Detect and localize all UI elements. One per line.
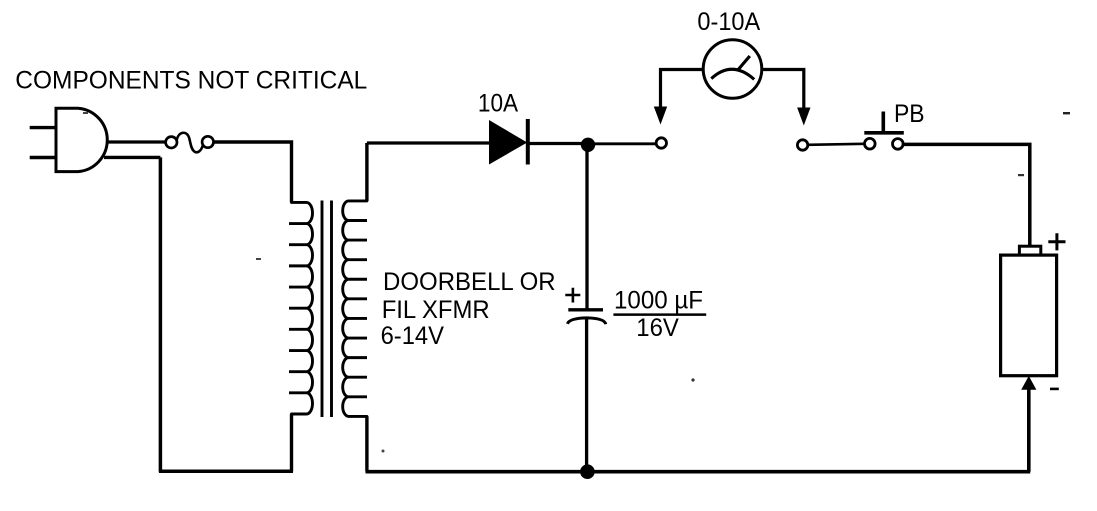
diode D1 triangle bbox=[489, 120, 527, 165]
arrow head left meter lead bbox=[654, 107, 667, 125]
svg-text:PB: PB bbox=[894, 100, 925, 128]
wire: battery bottom to rail bbox=[1027, 389, 1031, 472]
wire: terminal B to push button bbox=[808, 144, 864, 145]
battery BT1 body bbox=[1001, 255, 1057, 376]
svg-text:DOORBELL OR: DOORBELL OR bbox=[383, 268, 556, 296]
svg-text:FIL XFMR: FIL XFMR bbox=[382, 296, 490, 324]
transformer T1 core line left bbox=[321, 201, 324, 418]
battery minus sign bbox=[1050, 388, 1059, 391]
wire: bottom rail secondary bbox=[366, 470, 1031, 474]
AC plug P1 body bbox=[56, 108, 107, 171]
arrow head right meter lead bbox=[797, 108, 810, 126]
svg-text:1000 µF: 1000 µF bbox=[614, 287, 703, 315]
scan speck 5 bbox=[256, 258, 261, 260]
capacitor C1 curved plate bbox=[567, 318, 605, 324]
scan speck 2 bbox=[1018, 174, 1024, 176]
fuse F1 wave bbox=[177, 133, 203, 153]
battery plus sign bbox=[1048, 233, 1065, 250]
battery BT1 top terminal bump bbox=[1019, 246, 1040, 255]
ammeter M1 scale arc bbox=[711, 69, 754, 79]
transformer T1 secondary winding bbox=[343, 201, 367, 416]
arrow head battery bottom bbox=[1021, 376, 1036, 390]
terminal circle left (meter tap A) bbox=[656, 138, 666, 148]
scan speck 3 bbox=[691, 378, 694, 381]
wire: bottom rail primary bbox=[159, 470, 293, 474]
push button PB stem bbox=[881, 112, 885, 133]
push button PB contact right bbox=[893, 139, 904, 150]
svg-text:6-14V: 6-14V bbox=[381, 322, 445, 350]
wire: plug top cord to fuse bbox=[107, 140, 166, 143]
ammeter M1 body circle bbox=[703, 40, 762, 99]
diode D1 cathode bar bbox=[526, 119, 530, 165]
svg-text:COMPONENTS NOT CRITICAL: COMPONENTS NOT CRITICAL bbox=[15, 67, 367, 95]
wire: secondary top to diode bbox=[367, 141, 490, 144]
wire: fuse to transformer primary top bbox=[213, 142, 291, 202]
wire: capacitor top lead bbox=[585, 143, 588, 309]
transformer T1 primary winding bbox=[289, 202, 313, 414]
wire: diode to junction bbox=[528, 142, 585, 145]
terminal circle right (meter tap B) bbox=[797, 140, 807, 150]
wire: meter left lead bbox=[661, 70, 704, 111]
fuse F1 left circle bbox=[166, 137, 177, 148]
wire: transformer secondary bottom stub bbox=[365, 416, 368, 471]
wire: transformer secondary top stub bbox=[365, 143, 368, 201]
wire: meter right lead bbox=[762, 70, 804, 112]
scan speck 6 bbox=[382, 450, 385, 453]
push button PB contact left bbox=[865, 138, 876, 149]
svg-text:16V: 16V bbox=[636, 314, 679, 342]
junction dot top bbox=[581, 138, 595, 152]
plug prong top bbox=[30, 126, 56, 129]
ammeter M1 needle bbox=[737, 56, 749, 71]
wire: plug bottom cord bbox=[104, 156, 160, 159]
capacitor C1 top plate bbox=[568, 308, 603, 311]
svg-text:10A: 10A bbox=[478, 90, 518, 118]
svg-text:0-10A: 0-10A bbox=[697, 8, 760, 36]
wire: left vertical down bbox=[159, 157, 163, 471]
wire: transformer primary bottom stub bbox=[290, 414, 293, 471]
plug prong bottom bbox=[30, 156, 56, 159]
wire: capacitor bottom lead bbox=[585, 320, 588, 472]
capacitor C1 plus sign bbox=[565, 288, 580, 303]
fuse F1 right circle bbox=[202, 136, 213, 147]
scan speck 1 bbox=[1063, 112, 1070, 114]
junction dot bottom bbox=[580, 464, 595, 479]
scan speck 4 bbox=[83, 112, 88, 114]
fraction bar bbox=[613, 313, 706, 316]
wire: junction to meter terminal bbox=[588, 142, 656, 145]
push button PB bar bbox=[864, 131, 904, 135]
wire: push button to battery top bbox=[904, 144, 1030, 247]
transformer T1 core line right bbox=[330, 201, 333, 418]
